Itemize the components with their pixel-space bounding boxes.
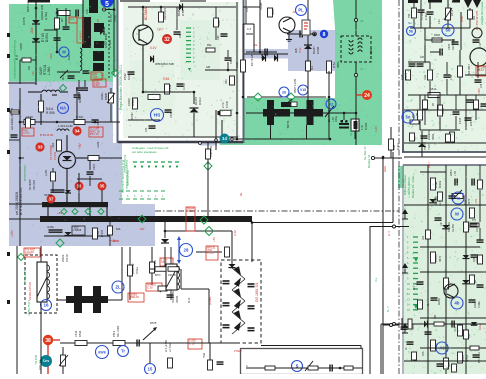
- svg-text:+8V: +8V: [78, 142, 82, 149]
- svg-text:ZL: ZL: [115, 285, 121, 290]
- svg-text:8: 8: [323, 32, 326, 38]
- svg-text:280N-81: 280N-81: [129, 295, 140, 299]
- svg-text:323 R317: 323 R317: [468, 64, 471, 75]
- svg-text:+4.8k: +4.8k: [97, 141, 100, 148]
- svg-text:D.504: D.504: [45, 33, 49, 42]
- svg-text:R.310: R.310: [396, 143, 400, 150]
- svg-text:C 50: C 50: [147, 285, 153, 289]
- svg-text:R52A: R52A: [272, 8, 275, 15]
- svg-text:HS: HS: [154, 113, 161, 119]
- svg-text:1.7k: 1.7k: [360, 124, 364, 130]
- svg-text:+5V: +5V: [474, 199, 478, 204]
- svg-text:P51 10: P51 10: [90, 132, 99, 136]
- svg-text:5.1: 5.1: [70, 17, 74, 21]
- svg-text:3.4V: 3.4V: [233, 230, 237, 236]
- svg-text:100n: 100n: [127, 73, 131, 80]
- svg-text:Zeilylla (Normale): Zeilylla (Normale): [480, 1, 484, 25]
- svg-text:6.51B: 6.51B: [459, 117, 462, 124]
- svg-text:3.3M: 3.3M: [434, 181, 438, 188]
- svg-text:sel 2920(-06108: sel 2920(-06108: [15, 192, 19, 215]
- svg-text:R527 117/B: R527 117/B: [293, 79, 297, 93]
- svg-text:L50.7B: L50.7B: [168, 274, 176, 277]
- svg-text:C51u: C51u: [335, 115, 338, 122]
- svg-text:MCT1: MCT1: [286, 120, 290, 128]
- svg-text:R606: R606: [412, 323, 415, 330]
- svg-text:R50B: R50B: [131, 99, 135, 106]
- svg-text:Mod 5K-: Mod 5K-: [34, 355, 38, 365]
- svg-text:+8V: +8V: [101, 73, 105, 78]
- svg-text:C.59: C.59: [401, 74, 404, 80]
- svg-text:6W6: 6W6: [98, 350, 105, 354]
- svg-text:3kB: 3kB: [294, 48, 298, 53]
- svg-text:Y517: Y517: [423, 143, 427, 150]
- svg-text:4/10n: 4/10n: [47, 225, 54, 229]
- svg-text:C54: C54: [230, 59, 233, 64]
- svg-text:N51A: N51A: [430, 87, 437, 91]
- svg-text:C51 B1B: C51 B1B: [33, 180, 36, 190]
- svg-text:C.37: C.37: [479, 42, 482, 48]
- svg-text:R534: R534: [78, 330, 82, 337]
- svg-text:Cs.505: Cs.505: [452, 223, 455, 232]
- svg-text:C549: C549: [169, 111, 173, 118]
- svg-text:R520: R520: [218, 19, 221, 26]
- svg-text:3.9b: 3.9b: [392, 144, 396, 150]
- svg-text:C31: C31: [477, 227, 479, 232]
- svg-text:R31B: R31B: [434, 34, 440, 37]
- svg-text:PL: PL: [298, 8, 304, 13]
- svg-text:R972: R972: [439, 255, 442, 262]
- svg-text:28: 28: [184, 248, 189, 253]
- svg-text:1MMRT: 1MMRT: [79, 30, 83, 40]
- svg-text:35: 35: [100, 184, 105, 189]
- svg-text:-33v: -33v: [30, 27, 34, 34]
- svg-text:BN 75.AB: BN 75.AB: [250, 54, 254, 66]
- svg-text:C3b: C3b: [481, 83, 483, 88]
- svg-text:0.45V: 0.45V: [477, 88, 481, 95]
- svg-text:38: 38: [45, 338, 51, 344]
- svg-text:75B: 75B: [408, 13, 411, 18]
- svg-text:BC547: BC547: [131, 112, 134, 120]
- svg-text:C44: C44: [145, 127, 148, 132]
- svg-text:32: 32: [164, 37, 170, 43]
- svg-text:C.31Y: C.31Y: [424, 12, 428, 20]
- svg-text:R.53B: R.53B: [207, 252, 214, 255]
- svg-text:B4B: B4B: [422, 351, 425, 356]
- svg-text:6 V: 6 V: [15, 54, 19, 60]
- svg-text:5o: 5o: [406, 115, 411, 120]
- svg-text:C 500: C 500: [108, 40, 112, 48]
- svg-text:44B.0: 44B.0: [450, 169, 453, 176]
- svg-text:29302-: 29302-: [61, 254, 65, 262]
- svg-text:Zeilendstufe: Zeilendstufe: [23, 165, 27, 182]
- svg-text:4a: 4a: [456, 196, 461, 201]
- svg-text:+8V: +8V: [57, 211, 62, 215]
- svg-text:M: M: [62, 50, 66, 55]
- svg-text:sul tubo stampato: sul tubo stampato: [132, 150, 157, 154]
- svg-text:45V: 45V: [140, 228, 145, 231]
- svg-text:P513: P513: [112, 330, 116, 337]
- svg-text:2.7D: 2.7D: [221, 102, 225, 108]
- svg-text:40/25: 40/25: [78, 96, 82, 103]
- svg-text:5A N0/5B: 5A N0/5B: [29, 179, 32, 190]
- svg-text:10BB3: 10BB3: [435, 254, 438, 262]
- svg-text:1000u: 1000u: [100, 92, 104, 100]
- svg-text:29302-165.00: 29302-165.00: [28, 282, 32, 300]
- svg-text:20/20HW: 20/20HW: [132, 263, 135, 274]
- svg-text:C513: C513: [74, 330, 78, 337]
- svg-text:R1531: R1531: [176, 295, 179, 303]
- svg-text:D.54B: D.54B: [316, 47, 320, 54]
- svg-text:54A: 54A: [116, 228, 121, 231]
- svg-text:C.5b: C.5b: [450, 74, 453, 80]
- svg-text:33: 33: [37, 145, 43, 150]
- svg-text:Tr: Tr: [121, 349, 125, 354]
- svg-text:1kB: 1kB: [206, 66, 211, 69]
- svg-text:50: 50: [446, 28, 451, 33]
- svg-text:R 506: R 506: [46, 111, 55, 115]
- svg-text:5: 5: [105, 1, 109, 8]
- svg-text:C3Cl: C3Cl: [94, 84, 100, 87]
- svg-text:70000/HW: 70000/HW: [172, 291, 175, 303]
- svg-text:+HL3: +HL3: [466, 354, 469, 361]
- svg-text:R50B: R50B: [104, 93, 108, 100]
- svg-text:M.1: M.1: [311, 65, 314, 70]
- svg-text:J1: J1: [360, 67, 363, 71]
- svg-text:+45V: +45V: [49, 53, 53, 60]
- svg-text:C31B: C31B: [448, 43, 451, 50]
- svg-text:BC548A: BC548A: [144, 7, 148, 20]
- svg-text:Cnv: Cnv: [43, 359, 50, 363]
- svg-text:39Ba: 39Ba: [336, 61, 340, 68]
- svg-text:R.50A: R.50A: [76, 115, 83, 119]
- svg-text:R 507: R 507: [100, 229, 104, 237]
- svg-text:34: 34: [74, 129, 80, 134]
- svg-text:318 R521: 318 R521: [163, 7, 167, 20]
- svg-text:353: 353: [473, 15, 476, 20]
- svg-text:D a: D a: [375, 278, 378, 283]
- svg-text:H.Y+0.5W: H.Y+0.5W: [164, 340, 168, 352]
- svg-text:C50s: C50s: [23, 131, 30, 135]
- svg-text:7M4: 7M4: [203, 353, 206, 358]
- svg-text:C51: C51: [179, 33, 182, 38]
- svg-text:253B1: 253B1: [405, 72, 408, 80]
- svg-text:L.98A: L.98A: [47, 66, 51, 75]
- svg-text:R.51a: R.51a: [136, 267, 139, 274]
- svg-text:N0/58B: N0/58B: [44, 194, 52, 197]
- svg-text:DG 1891 S/L: DG 1891 S/L: [255, 282, 259, 302]
- svg-text:+45V: +45V: [10, 230, 14, 237]
- svg-text:24: 24: [364, 93, 370, 99]
- svg-text:G -?: G -?: [386, 306, 390, 312]
- svg-text:22B: 22B: [470, 121, 473, 126]
- svg-text:0.4u: 0.4u: [439, 19, 441, 24]
- svg-text:49B: 49B: [434, 314, 437, 319]
- svg-text:C5a: C5a: [92, 75, 98, 79]
- svg-text:71.07: 71.07: [427, 143, 431, 150]
- svg-text:+5V: +5V: [212, 237, 216, 242]
- svg-text:45B: 45B: [448, 362, 451, 367]
- svg-text:9.54: 9.54: [163, 77, 169, 81]
- svg-text:NA: NA: [60, 106, 66, 111]
- svg-text:37: 37: [49, 197, 54, 202]
- svg-text:329A: 329A: [369, 48, 373, 55]
- svg-text:Ty.501: Ty.501: [53, 151, 57, 160]
- svg-text:R.52: R.52: [298, 47, 302, 53]
- svg-text:81B: 81B: [468, 333, 471, 338]
- svg-text:4b: 4b: [455, 301, 460, 306]
- svg-text:BAL C380: BAL C380: [117, 325, 120, 337]
- svg-text:L.59: L.59: [416, 113, 419, 118]
- svg-text:Module 31: Module 31: [367, 154, 371, 168]
- svg-text:44B.0: 44B.0: [435, 343, 438, 350]
- svg-text:R 509: R 509: [168, 84, 172, 92]
- svg-text:C 512: C 512: [25, 253, 32, 256]
- svg-text:1y.5B: 1y.5B: [45, 170, 48, 176]
- svg-text:+C 513: +C 513: [168, 343, 172, 352]
- svg-text:2-d: 2-d: [246, 8, 249, 12]
- svg-text:276kV: 276kV: [234, 349, 242, 353]
- svg-text:R.519: R.519: [438, 180, 442, 188]
- svg-text:R575: R575: [150, 321, 157, 325]
- svg-text:116.0: 116.0: [442, 107, 445, 114]
- svg-text:2200u: 2200u: [474, 301, 477, 308]
- svg-text:R063: R063: [432, 133, 435, 140]
- svg-text:0.47u: 0.47u: [182, 83, 186, 90]
- svg-text:10n: 10n: [440, 221, 443, 226]
- svg-text:100B: 100B: [462, 355, 465, 361]
- svg-text:8a: 8a: [239, 192, 243, 196]
- svg-text:7u/9B: 7u/9B: [259, 3, 263, 10]
- svg-text:BL/K: BL/K: [188, 297, 191, 303]
- svg-text:1kB: 1kB: [420, 57, 424, 59]
- svg-text:Farbart-Tasten: Farbart-Tasten: [23, 268, 27, 285]
- svg-text:165.00: 165.00: [65, 254, 69, 262]
- svg-text:B.of Druckplatte gedruckte: B.of Druckplatte gedruckte: [121, 160, 125, 193]
- svg-text:D.5B: D.5B: [181, 10, 185, 16]
- svg-text:R.51B: R.51B: [364, 123, 368, 130]
- svg-text:R51: R51: [225, 79, 228, 84]
- svg-text:26: 26: [282, 90, 286, 94]
- svg-text:B.5S R.50: B.5S R.50: [40, 133, 54, 137]
- svg-text:A -Y: A -Y: [387, 231, 391, 236]
- svg-text:R.bb: R.bb: [424, 74, 427, 80]
- svg-text:4n7: 4n7: [61, 17, 64, 22]
- svg-text:B/TO: B/TO: [155, 274, 161, 277]
- svg-text:ta/0v: ta/0v: [383, 165, 387, 172]
- svg-text:C.56A: C.56A: [478, 301, 481, 308]
- svg-text:5.4A: 5.4A: [96, 231, 100, 237]
- svg-text:15: 15: [148, 367, 153, 372]
- svg-text:1kB: 1kB: [422, 235, 425, 240]
- svg-text:449.7: 449.7: [428, 161, 431, 168]
- svg-text:C53: C53: [217, 35, 220, 40]
- svg-text:L.59: L.59: [454, 171, 457, 176]
- svg-text:P.47B: P.47B: [225, 101, 229, 108]
- svg-text:R579: R579: [450, 9, 454, 16]
- svg-text:C512: C512: [187, 210, 193, 213]
- svg-text:16: 16: [43, 303, 49, 308]
- svg-text:V15: V15: [300, 88, 306, 92]
- svg-text:C51B: C51B: [93, 164, 96, 170]
- svg-text:100u: 100u: [479, 324, 482, 330]
- svg-text:BA157: BA157: [312, 46, 316, 54]
- svg-text:L.519 44.8k: L.519 44.8k: [58, 124, 73, 128]
- svg-text:4B: 4B: [97, 19, 100, 22]
- svg-text:R5a: R5a: [207, 44, 212, 47]
- svg-text:C.3: C.3: [247, 28, 252, 31]
- svg-text:10n/6BC: 10n/6BC: [428, 130, 431, 140]
- svg-text:D.5C2: D.5C2: [198, 97, 202, 105]
- svg-text:BA157: BA157: [194, 96, 198, 105]
- svg-text:C.: C.: [246, 364, 249, 368]
- svg-text:Su: Su: [408, 21, 412, 25]
- svg-text:5.4A R.51: 5.4A R.51: [209, 145, 213, 157]
- svg-text:F-How-Tasten: F-How-Tasten: [27, 300, 30, 316]
- svg-text:0.1V: 0.1V: [150, 46, 157, 50]
